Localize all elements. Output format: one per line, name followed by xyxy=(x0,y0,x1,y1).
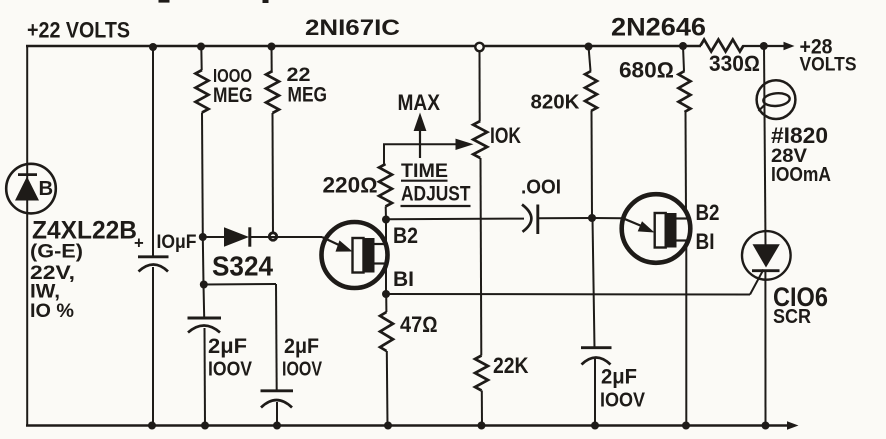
diode S324 triangle xyxy=(224,227,249,246)
transistor Q2 part label 2N2646 xyxy=(611,15,706,42)
potentiometer TIME label xyxy=(401,160,448,182)
wire SCR cathode to bottom rail xyxy=(764,271,766,426)
zener voltage label xyxy=(30,263,75,284)
wire 22MEG to cathode node xyxy=(272,113,275,237)
capacitor 10uF value xyxy=(157,232,197,253)
svg-text:IOK: IOK xyxy=(490,123,521,148)
potentiometer 10K resistor xyxy=(473,121,487,158)
node diode anode junction xyxy=(199,233,207,241)
wire bottom rail xyxy=(26,424,789,427)
transistor Q2 base bar outline xyxy=(655,213,666,248)
transistor Q2 B2 lead xyxy=(677,217,690,219)
svg-text:MEG: MEG xyxy=(288,84,328,107)
node top rail junction B xyxy=(197,43,205,51)
resistor 680 ohm xyxy=(679,71,691,112)
potentiometer wiper arrowhead xyxy=(456,139,474,150)
wire 2uF cap1 to bottom rail xyxy=(204,328,207,426)
wire pot top stub xyxy=(479,51,481,121)
capacitor 2uF C-c curved plate xyxy=(582,358,611,365)
SCR C106 circle xyxy=(742,231,791,280)
svg-text:IOμF: IOμF xyxy=(157,232,197,253)
svg-text:IOOV: IOOV xyxy=(282,358,322,381)
wire diode anode lead xyxy=(203,236,225,238)
resistor 47 ohm value xyxy=(400,312,438,337)
wire Q1-B2 node to .001 cap xyxy=(386,218,524,221)
diode part label S324 xyxy=(212,250,274,281)
wire 680ohm top stub xyxy=(683,46,684,71)
wire 820K junction down to 2uF cap3 xyxy=(593,218,595,348)
transistor Q1 label B2 xyxy=(393,223,418,248)
resistor 220 ohm xyxy=(379,164,392,207)
zener diode cathode bar xyxy=(18,173,37,176)
node bottom rail junction 1 xyxy=(148,422,156,430)
transistor Q2 emitter arrowhead xyxy=(638,221,655,232)
transistor Q2 label B2 xyxy=(696,200,720,225)
svg-text:BI: BI xyxy=(696,229,715,254)
svg-text:VOLTS: VOLTS xyxy=(800,54,857,76)
lamp filament tail xyxy=(759,104,767,112)
resistor 1000 MEG value line1 xyxy=(213,65,252,86)
wire .001 cap to 820K node xyxy=(538,217,592,219)
SCR gate line xyxy=(750,270,764,295)
svg-text:2μF: 2μF xyxy=(601,365,637,389)
capacitor .001 curved plate xyxy=(522,205,531,232)
wire bottom rail arrowhead xyxy=(787,421,799,430)
node bottom rail junction 5 xyxy=(478,422,486,430)
node top rail junction F xyxy=(760,42,768,50)
potentiometer 10K value xyxy=(490,123,521,148)
wire 820K top stub xyxy=(589,46,591,71)
wire top edge fragment right xyxy=(263,0,269,3)
resistor 47 ohm xyxy=(380,312,393,351)
node +22 VOLTS label xyxy=(27,18,130,43)
wire 47ohm top stub xyxy=(385,294,387,312)
svg-text:(G-E): (G-E) xyxy=(30,241,83,263)
wire 22K to bottom rail xyxy=(481,391,483,426)
wire branch corner down xyxy=(275,284,278,391)
capacitor .001 straight plate xyxy=(536,205,539,235)
lamp #1820 circle xyxy=(757,80,796,119)
capacitor .001 value xyxy=(521,175,561,198)
wire Q1 B2 vertical xyxy=(385,220,387,248)
resistor 22 MEG value line1 xyxy=(287,64,311,86)
lamp voltage xyxy=(771,146,807,167)
potentiometer MAX label xyxy=(398,90,441,115)
svg-text:220Ω: 220Ω xyxy=(323,172,378,197)
lamp filament loop xyxy=(763,92,790,107)
svg-text:#I820: #I820 xyxy=(771,123,828,148)
wire Q1 B1 to SCR gate xyxy=(386,293,750,296)
transistor Q1 emitter arrowhead xyxy=(336,240,353,251)
node top rail junction D xyxy=(585,43,593,51)
svg-text:+22 VOLTS: +22 VOLTS xyxy=(27,18,130,43)
resistor 22K xyxy=(475,356,488,391)
svg-text:BI: BI xyxy=(393,268,414,291)
transistor Q1 label B1 xyxy=(393,268,414,291)
transistor Q2 emitter line xyxy=(623,218,644,227)
svg-text:47Ω: 47Ω xyxy=(400,312,438,337)
svg-text:22: 22 xyxy=(287,64,311,86)
SCR label xyxy=(773,306,811,328)
node bottom rail junction 2 xyxy=(201,422,209,430)
capacitor 2uF C-b top plate xyxy=(261,389,294,392)
svg-text:2N2646: 2N2646 xyxy=(611,15,706,42)
capacitor 2uF C-c rating xyxy=(600,389,645,412)
resistor 22K value xyxy=(493,353,529,378)
wire diode cathode to UJT1 emitter xyxy=(250,236,322,238)
diode S324 cathode bar xyxy=(248,227,251,246)
svg-text:MAX: MAX xyxy=(398,90,441,115)
wire top rail right segment xyxy=(743,45,789,47)
wire top edge fragment left xyxy=(159,0,170,3)
resistor 220 ohm value xyxy=(323,172,378,197)
svg-text:B2: B2 xyxy=(696,200,720,225)
resistor 820K xyxy=(585,71,597,111)
SCR part label C106 xyxy=(773,282,828,312)
capacitor 2uF C-a value xyxy=(208,335,247,358)
zener diode Z4XL22B circle xyxy=(6,164,56,214)
svg-text:IOOV: IOOV xyxy=(208,358,252,381)
potentiometer ADJUST label xyxy=(401,181,471,205)
wire 220ohm bottom stub xyxy=(385,207,387,220)
transistor Q2 UJT circle xyxy=(622,194,691,263)
wire MAX arrowhead xyxy=(414,113,427,132)
transistor Q1 emitter line xyxy=(322,237,341,246)
wire left vertical branch xyxy=(26,45,28,427)
resistor 330 ohm value xyxy=(709,51,760,76)
node bottom rail junction 4 xyxy=(384,422,392,430)
zener tolerance label xyxy=(30,300,74,322)
svg-text:330Ω: 330Ω xyxy=(709,51,760,76)
node Q1 B1 junction xyxy=(382,290,390,298)
zener maker label xyxy=(30,241,83,263)
transistor Q1 UJT circle xyxy=(322,222,388,288)
svg-text:680Ω: 680Ω xyxy=(619,58,674,83)
svg-text:IOOmA: IOOmA xyxy=(771,163,831,186)
svg-text:IO %: IO % xyxy=(30,300,74,322)
potentiometer ADJUST underline xyxy=(401,205,471,207)
node 820K column junction xyxy=(588,214,596,222)
svg-text:IOOV: IOOV xyxy=(600,389,645,412)
node top rail junction E xyxy=(679,42,687,50)
transistor Q2 B1 lead xyxy=(677,239,690,241)
potentiometer TIME underline xyxy=(401,180,448,182)
wire 22MEG top stub xyxy=(271,46,273,71)
capacitor 10uF curved plate xyxy=(139,265,169,272)
capacitor 2uF C-b value xyxy=(284,335,319,358)
SCR anode triangle xyxy=(753,244,780,267)
svg-text:.OOI: .OOI xyxy=(521,175,561,198)
wire 2uF cap3 to bottom rail xyxy=(594,358,596,426)
lamp current xyxy=(771,163,831,186)
wire 1000MEG top stub xyxy=(200,46,202,70)
node diode cathode junction xyxy=(269,233,276,240)
svg-text:TIME: TIME xyxy=(401,160,448,182)
resistor 22 MEG xyxy=(266,71,279,113)
transistor Q1 base bar outline xyxy=(353,238,364,273)
zener terminal label B xyxy=(39,178,54,200)
svg-text:B2: B2 xyxy=(393,223,418,248)
node bottom rail junction 8 xyxy=(762,422,770,430)
transistor Q1 part label 2N1671C xyxy=(305,15,400,40)
node top rail junction C xyxy=(268,43,276,51)
wire pot column down xyxy=(480,158,483,356)
node Q1 B2 junction xyxy=(382,216,390,224)
wire branch horizontal y284 xyxy=(204,283,276,286)
node +28 volts label line1 xyxy=(800,35,833,59)
node bottom rail junction 6 xyxy=(591,422,599,430)
svg-text:S324: S324 xyxy=(212,250,274,281)
node bottom rail junction 3 xyxy=(273,422,281,430)
svg-text:B: B xyxy=(39,178,54,200)
wire 2uF cap2 to bottom rail xyxy=(276,402,278,426)
transistor Q2 label B1 xyxy=(696,229,715,254)
transistor Q1 base bar filled xyxy=(363,238,374,273)
node bottom rail junction 7 xyxy=(682,422,690,430)
wire pot wiper corner xyxy=(384,144,456,164)
wire +28 volts arrowhead xyxy=(784,42,795,51)
svg-text:IOOO: IOOO xyxy=(213,65,252,86)
wire diode node to cap node xyxy=(202,237,205,285)
lamp part number xyxy=(771,123,828,148)
wire cap node to 2uF cap1 xyxy=(203,285,206,318)
zener diode triangle xyxy=(15,177,39,201)
svg-text:SCR: SCR xyxy=(773,306,811,328)
node top rail pot tap ring xyxy=(475,43,483,51)
svg-text:2NI67IC: 2NI67IC xyxy=(305,15,400,40)
wire Q1 B1 vertical xyxy=(385,262,387,294)
node top rail junction A xyxy=(149,43,157,51)
capacitor 2uF C-a top plate xyxy=(188,317,222,320)
svg-text:22K: 22K xyxy=(493,353,529,378)
node +28 volts label line2 xyxy=(800,54,857,76)
capacitor 2uF C-c value xyxy=(601,365,637,389)
capacitor 2uF C-b rating xyxy=(282,358,322,381)
capacitor 2uF C-a rating xyxy=(208,358,252,381)
svg-text:820K: 820K xyxy=(531,92,580,114)
svg-text:MEG: MEG xyxy=(213,84,253,107)
resistor 1000 MEG xyxy=(196,70,209,113)
capacitor 2uF C-b curved plate xyxy=(261,400,292,408)
wire lamp column xyxy=(764,46,766,245)
wire 47ohm to bottom rail xyxy=(386,351,389,426)
capacitor 10uF plus sign xyxy=(134,233,144,252)
wire 10uF column lower xyxy=(152,267,154,426)
svg-text:2μF: 2μF xyxy=(208,335,247,358)
svg-text:2μF: 2μF xyxy=(284,335,319,358)
wire 820K to junction xyxy=(591,111,594,218)
zener power label xyxy=(30,282,60,303)
resistor 330 ohm xyxy=(701,40,744,52)
capacitor 2uF C-c top plate xyxy=(581,346,612,349)
capacitor 10uF top plate xyxy=(138,255,169,258)
zener part label Z4XL22B xyxy=(32,217,137,245)
transistor Q1 B2 lead xyxy=(375,243,389,245)
wire 10uF column upper xyxy=(152,46,154,257)
wire Q2 B1 region to bottom rail xyxy=(685,245,687,426)
transistor Q2 base bar filled xyxy=(666,213,677,248)
capacitor 2uF C-a curved plate xyxy=(188,326,220,333)
wire MAX arrow shaft xyxy=(419,126,421,158)
resistor 1000 MEG value line2 xyxy=(213,84,253,107)
transistor Q1 B1 lead xyxy=(375,262,389,264)
wire 680ohm to Q2 B2 region xyxy=(685,112,688,214)
wire top rail left segment xyxy=(26,45,701,47)
wire 820K node to UJT2 emitter xyxy=(592,217,623,219)
svg-text:ADJUST: ADJUST xyxy=(401,181,471,205)
wire 1000MEG to diode node xyxy=(201,113,204,238)
resistor 820K value xyxy=(531,92,580,114)
resistor 22 MEG value line2 xyxy=(288,84,328,107)
SCR cathode bar xyxy=(752,269,780,272)
node branch junction 284 xyxy=(200,281,208,289)
resistor 680 ohm value xyxy=(619,58,674,83)
